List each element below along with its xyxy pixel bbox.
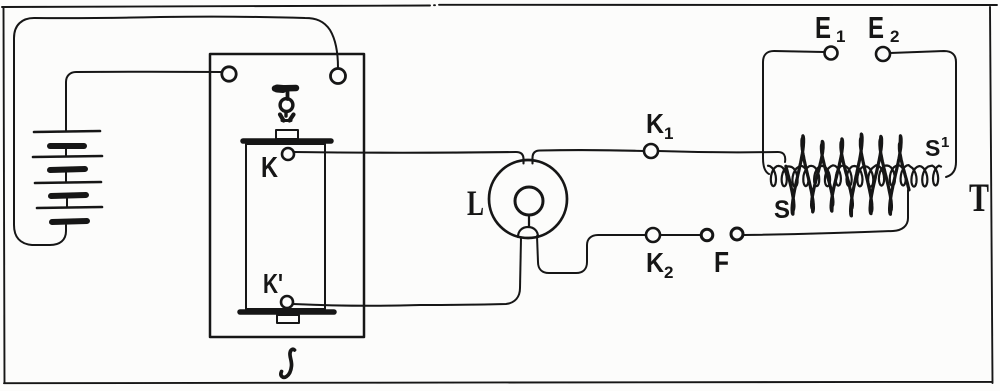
svg-text:2: 2 <box>664 263 673 282</box>
svg-text:S: S <box>774 196 790 224</box>
svg-text:K: K <box>646 108 664 139</box>
svg-text:1: 1 <box>664 124 673 143</box>
svg-text:1: 1 <box>941 134 949 151</box>
svg-text:F: F <box>714 247 729 279</box>
svg-text:T: T <box>969 175 989 220</box>
svg-text:1: 1 <box>836 27 845 46</box>
svg-text:E: E <box>868 10 884 45</box>
svg-text:E: E <box>815 10 831 45</box>
svg-text:2: 2 <box>890 27 899 46</box>
svg-text:K: K <box>261 152 278 184</box>
svg-text:S: S <box>925 135 940 161</box>
svg-text:K': K' <box>263 268 283 299</box>
svg-text:K: K <box>646 247 664 278</box>
svg-text:L: L <box>467 183 484 223</box>
